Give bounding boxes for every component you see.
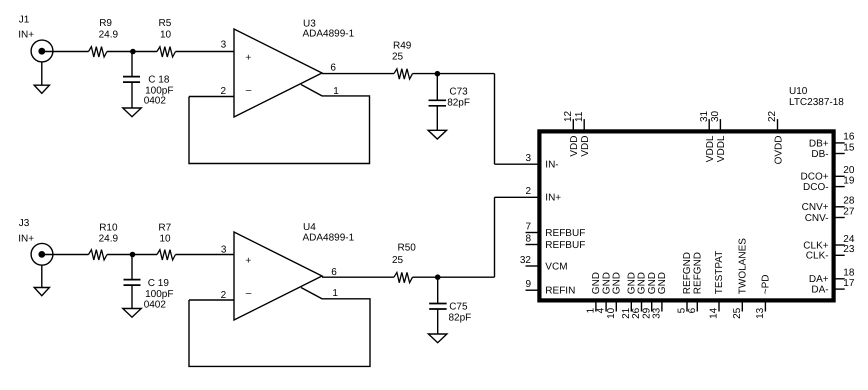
svg-text:10: 10 bbox=[606, 307, 617, 319]
svg-text:23: 23 bbox=[843, 244, 855, 255]
svg-text:2: 2 bbox=[525, 186, 531, 197]
svg-text:R50: R50 bbox=[398, 242, 417, 253]
svg-text:27: 27 bbox=[843, 206, 855, 217]
svg-text:11: 11 bbox=[574, 111, 585, 122]
svg-text:TWOLANES: TWOLANES bbox=[738, 238, 749, 294]
svg-text:REFIN: REFIN bbox=[545, 286, 575, 297]
svg-text:+: + bbox=[245, 53, 251, 64]
svg-text:7: 7 bbox=[525, 221, 531, 232]
svg-text:CNV-: CNV- bbox=[805, 213, 829, 224]
svg-text:GND: GND bbox=[612, 272, 623, 294]
svg-text:VDDL: VDDL bbox=[705, 135, 716, 162]
svg-text:30: 30 bbox=[710, 110, 721, 122]
svg-text:3: 3 bbox=[525, 153, 531, 164]
svg-text:12: 12 bbox=[563, 110, 574, 122]
svg-text:31: 31 bbox=[699, 110, 710, 122]
svg-text:IN+: IN+ bbox=[18, 233, 34, 244]
svg-text:10: 10 bbox=[160, 233, 172, 244]
svg-text:TESTPAT: TESTPAT bbox=[714, 251, 725, 295]
svg-text:ADA4899-1: ADA4899-1 bbox=[303, 232, 355, 243]
svg-text:32: 32 bbox=[520, 255, 532, 266]
svg-text:17: 17 bbox=[843, 278, 855, 289]
svg-text:REFGND: REFGND bbox=[693, 252, 704, 294]
svg-text:0402: 0402 bbox=[144, 96, 167, 107]
svg-text:J1: J1 bbox=[19, 15, 30, 26]
svg-text:3: 3 bbox=[221, 40, 227, 51]
svg-text:24.9: 24.9 bbox=[99, 29, 119, 40]
svg-text:ADA4899-1: ADA4899-1 bbox=[303, 28, 355, 39]
svg-text:C75: C75 bbox=[449, 301, 468, 312]
svg-text:IN+: IN+ bbox=[18, 30, 34, 41]
svg-text:CLK-: CLK- bbox=[806, 251, 829, 262]
svg-text:DB-: DB- bbox=[811, 149, 828, 160]
svg-text:2: 2 bbox=[221, 290, 227, 301]
svg-text:9: 9 bbox=[525, 279, 531, 290]
svg-text:VDD: VDD bbox=[580, 136, 591, 157]
svg-text:GND: GND bbox=[657, 272, 668, 294]
svg-text:10: 10 bbox=[160, 29, 172, 40]
svg-text:–: – bbox=[246, 85, 252, 96]
svg-text:13: 13 bbox=[755, 307, 766, 319]
svg-text:R7: R7 bbox=[158, 222, 171, 233]
svg-text:IN-: IN- bbox=[545, 160, 558, 171]
svg-text:–: – bbox=[246, 288, 252, 299]
svg-text:6: 6 bbox=[330, 63, 336, 74]
svg-text:C 18: C 18 bbox=[148, 74, 170, 85]
svg-text:R49: R49 bbox=[393, 40, 412, 51]
svg-text:J3: J3 bbox=[19, 218, 30, 229]
svg-text:DA-: DA- bbox=[811, 285, 828, 296]
svg-text:22: 22 bbox=[767, 110, 778, 122]
svg-text:2: 2 bbox=[221, 86, 227, 97]
svg-text:19: 19 bbox=[843, 175, 855, 186]
svg-text:15: 15 bbox=[843, 142, 855, 153]
svg-text:25: 25 bbox=[392, 255, 404, 266]
svg-text:8: 8 bbox=[525, 233, 531, 244]
svg-text:6: 6 bbox=[331, 267, 337, 278]
svg-text:14: 14 bbox=[709, 307, 720, 319]
svg-text:IN+: IN+ bbox=[545, 193, 561, 204]
svg-text:~PD: ~PD bbox=[761, 274, 772, 294]
svg-text:REFBUF: REFBUF bbox=[545, 240, 585, 251]
svg-text:VDDL: VDDL bbox=[716, 135, 727, 162]
svg-text:LTC2387-18: LTC2387-18 bbox=[789, 97, 844, 108]
svg-text:DB+: DB+ bbox=[809, 138, 829, 149]
svg-text:R9: R9 bbox=[99, 18, 112, 29]
svg-text:24.9: 24.9 bbox=[99, 233, 119, 244]
svg-text:R10: R10 bbox=[99, 222, 118, 233]
svg-text:1: 1 bbox=[333, 86, 339, 97]
svg-text:1: 1 bbox=[332, 288, 338, 299]
svg-text:16: 16 bbox=[843, 132, 855, 143]
svg-text:CNV+: CNV+ bbox=[802, 202, 829, 213]
svg-text:C73: C73 bbox=[449, 86, 468, 97]
svg-text:0402: 0402 bbox=[144, 299, 167, 310]
svg-text:33: 33 bbox=[652, 307, 663, 319]
svg-text:C 19: C 19 bbox=[148, 278, 170, 289]
svg-text:R5: R5 bbox=[159, 18, 172, 29]
svg-text:25: 25 bbox=[392, 52, 404, 63]
svg-text:25: 25 bbox=[732, 307, 743, 319]
svg-text:+: + bbox=[245, 256, 251, 267]
svg-text:6: 6 bbox=[687, 307, 698, 313]
svg-text:REFBUF: REFBUF bbox=[545, 228, 585, 239]
svg-text:U10: U10 bbox=[789, 86, 808, 97]
svg-text:VCM: VCM bbox=[545, 261, 567, 272]
svg-text:82pF: 82pF bbox=[449, 312, 472, 323]
svg-text:3: 3 bbox=[221, 245, 227, 256]
svg-text:82pF: 82pF bbox=[447, 97, 470, 108]
svg-text:VDD: VDD bbox=[569, 136, 580, 157]
svg-text:28: 28 bbox=[843, 196, 855, 207]
svg-text:OVDD: OVDD bbox=[773, 136, 784, 165]
svg-text:DCO-: DCO- bbox=[803, 182, 829, 193]
